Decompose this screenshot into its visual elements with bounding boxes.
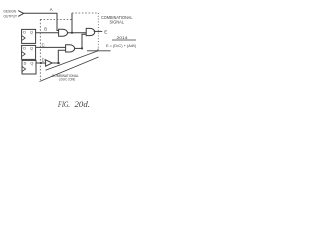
junction node (58.3,63) — [57, 62, 59, 64]
junction node (72,32.7) — [71, 32, 73, 34]
flip-flop FF1 — [22, 29, 36, 43]
svg-text:LOGIC CONE: LOGIC CONE — [59, 77, 76, 82]
junction node (82,48.4) — [81, 47, 83, 49]
wire A (design output to gate U1 top input) — [24, 13, 59, 30]
dashed leader vertical x=98 — [97, 13, 99, 49]
arrow design-output — [18, 11, 23, 17]
junction node (41,63) — [40, 62, 42, 64]
svg-text:E: E — [104, 30, 107, 35]
and-gate U2 (C AND D) — [66, 45, 75, 52]
equation leader wire — [87, 50, 111, 52]
wire B (FF1 Q to gate U1 lower input) — [36, 32, 59, 34]
cone upper edge — [46, 51, 99, 71]
cone apex tick — [97, 49, 100, 51]
svg-text:Q: Q — [30, 47, 33, 51]
wire C (FF2 Q to gate U2 top input) — [36, 46, 66, 48]
wire U1 output to U3 — [68, 32, 86, 34]
svg-text:B: B — [44, 27, 47, 32]
overline above equation — [112, 39, 136, 41]
dashed boundary horizontal y=19 — [40, 18, 72, 20]
wire D (buffer out, riser to U2 lower input) — [52, 50, 65, 63]
svg-text:SIGNAL: SIGNAL — [110, 20, 125, 25]
svg-text:Q: Q — [30, 62, 33, 66]
wire riser x=82 to U3 lower input — [82, 34, 86, 48]
wire FF3 Q to buffer — [36, 62, 46, 64]
label COMBINATIONAL LOGIC CONE — [52, 73, 80, 82]
dashed boundary vertical x=40 — [39, 19, 41, 80]
svg-text:D: D — [24, 62, 27, 66]
svg-text:20d.: 20d. — [75, 99, 91, 109]
svg-text:E = (D•C) + (A•B): E = (D•C) + (A•B) — [106, 43, 137, 48]
svg-text:D: D — [42, 58, 45, 63]
svg-text:C: C — [42, 42, 45, 47]
svg-text:OUTPUT: OUTPUT — [4, 13, 18, 18]
svg-text:FIG.: FIG. — [57, 99, 70, 109]
dashed leader y=13 (x72 to x98) — [72, 12, 98, 14]
wire U2 output — [75, 47, 82, 49]
label DESIGN OUTPUT — [4, 9, 18, 19]
cone lower edge — [40, 57, 99, 82]
flip-flop FF2 — [22, 45, 36, 59]
wire riser x=72 — [71, 13, 73, 33]
flip-flop FF3 — [22, 60, 36, 74]
svg-text:2014: 2014 — [117, 36, 128, 40]
svg-text:D: D — [23, 31, 26, 35]
svg-text:D: D — [23, 47, 26, 51]
svg-text:Q: Q — [30, 31, 33, 35]
label COMBINATIONAL SIGNAL — [101, 15, 133, 24]
svg-text:A: A — [50, 7, 53, 12]
wire E output — [94, 30, 102, 32]
and-gate U1 (A AND B) — [59, 29, 68, 36]
or-gate U3 (output E) — [86, 28, 95, 35]
buffer U4 — [46, 60, 53, 66]
